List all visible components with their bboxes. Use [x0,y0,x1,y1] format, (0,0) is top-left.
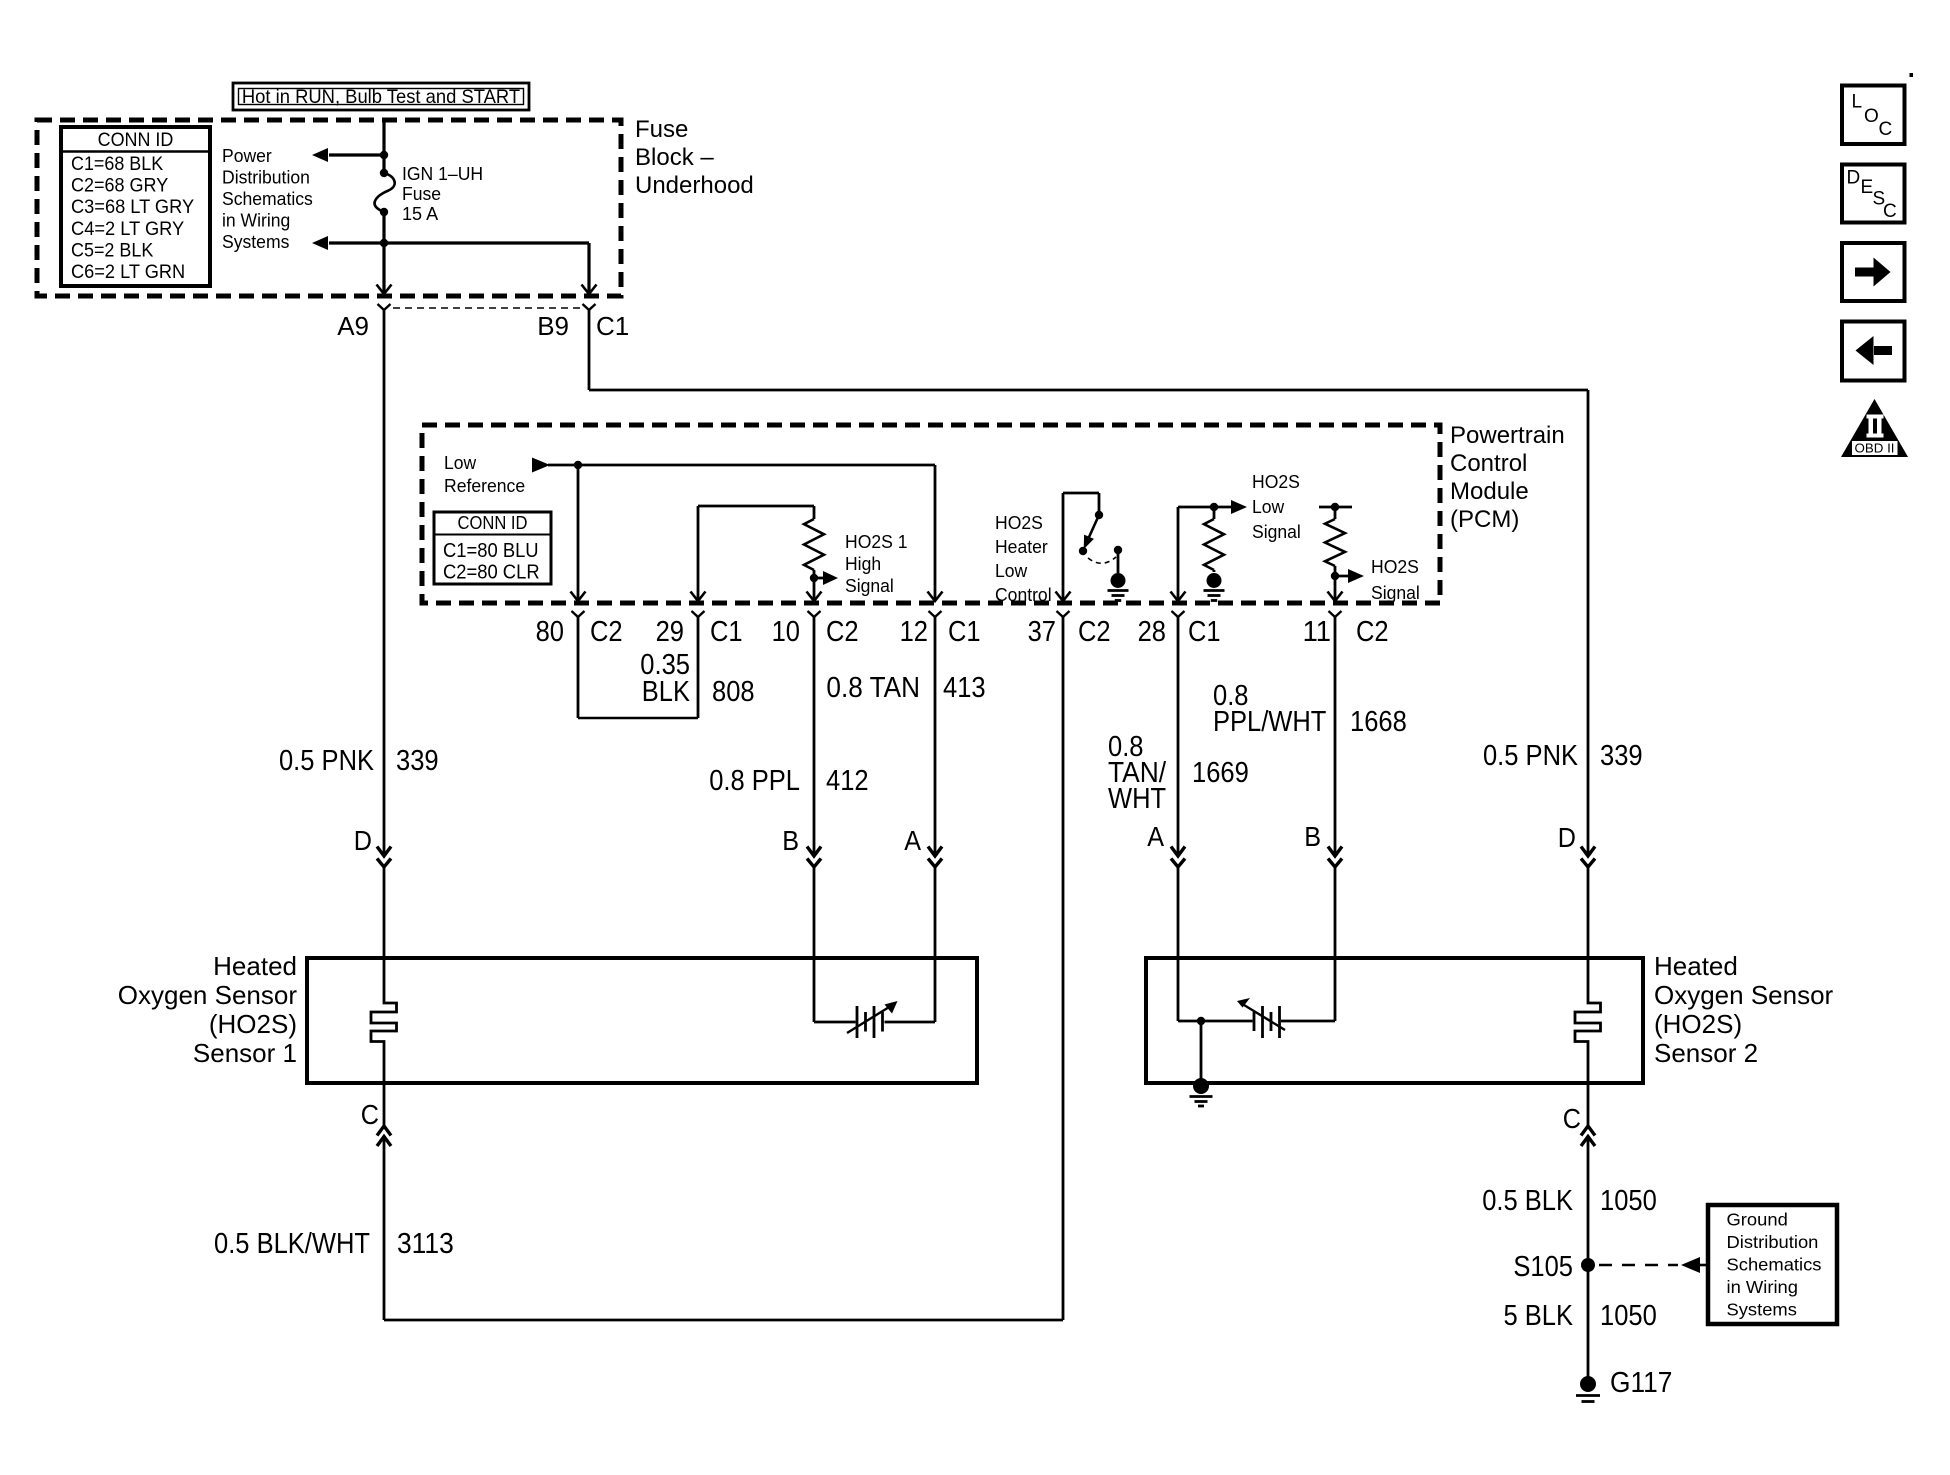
svg-text:(PCM): (PCM) [1450,506,1519,533]
pin 29 C1 [691,592,706,602]
svg-text:D: D [1847,168,1861,189]
HO2S2 pin C wire [1587,1083,1590,1128]
svg-text:C: C [361,1099,379,1130]
node: junction to power distribution [380,151,388,159]
pin B9 [582,285,597,295]
svg-text:HO2S 1: HO2S 1 [845,531,908,552]
svg-text:HO2S: HO2S [1371,556,1419,577]
switch travel dashed arc [1088,557,1116,563]
wire: B9 feed to HO2S2 pin D [588,310,591,390]
svg-text:3113: 3113 [397,1228,454,1260]
CONN ID table (PCM) [434,512,551,584]
svg-text:E: E [1861,177,1874,198]
svg-text:Distribution: Distribution [1727,1232,1819,1252]
svg-text:Signal: Signal [1252,521,1301,542]
svg-text:Heater: Heater [995,536,1048,557]
svg-text:1050: 1050 [1600,1185,1657,1217]
svg-text:C1: C1 [1188,616,1221,648]
svg-text:Heated: Heated [213,951,297,981]
Ground Distribution Schematics box [1708,1205,1837,1324]
Powertrain Control Module (PCM) dashed box [422,425,1440,603]
svg-text:Low: Low [1252,496,1285,517]
svg-text:Fuse: Fuse [635,116,688,143]
svg-text:C2: C2 [826,616,859,648]
svg-text:Powertrain: Powertrain [1450,422,1565,449]
resistor: HO2S 1 high signal pull-up [813,506,816,519]
svg-text:HO2S: HO2S [1252,471,1300,492]
svg-text:HO2S: HO2S [995,512,1043,533]
svg-text:C: C [1883,201,1897,222]
wire: drop to A9 [382,243,385,294]
CONN ID table (fuse block) [61,127,210,286]
svg-text:C1=68 BLK: C1=68 BLK [71,153,163,175]
HO2S1 heater element [371,958,397,1083]
wire arrow to power distribution schematics (top) [329,153,384,156]
svg-text:15 A: 15 A [402,203,439,224]
power label box: Hot in RUN, Bulb Test and START [233,83,529,110]
wire: pins 80-29 loop, 0.35 BLK 808 [577,617,580,718]
icon arrow right [1842,243,1905,301]
svg-text:412: 412 [826,765,869,797]
HO2S 1 High Signal resistor branch [697,506,700,601]
svg-text:C1: C1 [596,311,629,341]
svg-text:Heated: Heated [1654,951,1738,981]
svg-text:80: 80 [536,616,564,648]
wire: A9 to HO2S1 pin D [383,310,386,856]
svg-text:O: O [1864,106,1879,127]
svg-text:1668: 1668 [1350,706,1407,738]
HO2S2 variable arrow [1244,1005,1285,1030]
wire arrow to power distribution schematics (bottom), runs to B9 drop [329,241,589,244]
svg-text:B: B [782,825,799,856]
splice S105 [1581,1258,1595,1272]
ground G117 [1587,1265,1590,1377]
svg-text:Underhood: Underhood [635,172,754,199]
wire: pin28 to HO2S2 A, 0.8 TAN/WHT 1669 [1177,617,1180,856]
Heated Oxygen Sensor (HO2S) Sensor 1 box [307,958,977,1083]
svg-text:C2=68 GRY: C2=68 GRY [71,175,168,197]
svg-text:Low: Low [995,560,1028,581]
svg-text:Systems: Systems [222,231,289,252]
svg-text:C1: C1 [948,616,981,648]
svg-text:Signal: Signal [845,575,894,596]
svg-text:Reference: Reference [444,475,525,496]
HO2S1 sensing cell (variable battery) [813,958,816,1022]
wire: pin10 to HO2S1 B, 0.8 PPL 412 [813,617,816,856]
svg-text:IGN 1–UH: IGN 1–UH [402,163,483,184]
svg-text:10: 10 [772,616,800,648]
svg-text:BLK: BLK [642,676,691,708]
svg-text:Oxygen Sensor: Oxygen Sensor [1654,980,1834,1010]
svg-text:Systems: Systems [1727,1300,1798,1320]
svg-text:Fuse: Fuse [402,183,441,204]
icon arrow left [1842,322,1905,381]
svg-text:(HO2S): (HO2S) [209,1009,297,1039]
svg-text:CONN ID: CONN ID [458,513,528,533]
HO2S2 heater element [1575,958,1601,1083]
svg-text:37: 37 [1028,616,1056,648]
HO2S1 pin C wire [383,1083,386,1128]
Heated Oxygen Sensor (HO2S) Sensor 2 box [1146,958,1643,1083]
svg-text:B9: B9 [537,311,569,341]
pin 28 C1 [1171,592,1186,602]
svg-text:D: D [1558,822,1576,853]
svg-text:C: C [1563,1103,1581,1134]
wire: pin37 to HO2S1 ground run [1062,617,1065,1320]
ground: PCM internal (switch contact) [1111,573,1126,588]
Fuse Block - Underhood dashed box [37,120,621,296]
svg-text:C2: C2 [1078,616,1111,648]
svg-text:G117: G117 [1610,1367,1672,1399]
svg-text:11: 11 [1303,616,1331,648]
svg-text:0.5 BLK/WHT: 0.5 BLK/WHT [214,1228,370,1260]
svg-text:Control: Control [995,584,1052,605]
pin 11 C2 [1328,592,1343,602]
fuse IGN 1-UH 15A [380,169,388,177]
svg-text:D: D [354,825,372,856]
pin 37 C2 [1056,592,1071,602]
svg-text:Schematics: Schematics [1727,1255,1822,1275]
pin A9 [377,285,392,295]
svg-text:0.5 PNK: 0.5 PNK [1483,740,1579,772]
svg-text:0.8 PPL: 0.8 PPL [709,765,800,797]
svg-text:29: 29 [656,616,684,648]
svg-text:Module: Module [1450,478,1529,505]
svg-text:Low: Low [444,452,477,473]
svg-text:C3=68 LT GRY: C3=68 LT GRY [71,196,194,218]
svg-text:C1: C1 [710,616,743,648]
svg-text:0.5 BLK: 0.5 BLK [1482,1185,1573,1217]
svg-text:CONN ID: CONN ID [98,129,174,151]
svg-text:12: 12 [900,616,928,648]
svg-text:339: 339 [1600,740,1643,772]
svg-text:1050: 1050 [1600,1300,1657,1332]
pin 80 C2 [571,592,586,602]
HO2S2 sensing cell [1177,958,1180,1021]
wire: drop to B9 [587,243,590,294]
icon DESC [1842,165,1905,223]
svg-text:A9: A9 [337,311,369,341]
svg-text:C1=80 BLU: C1=80 BLU [443,540,539,562]
switch fixed contact to ground [1114,546,1122,554]
svg-text:Sensor 1: Sensor 1 [193,1038,297,1068]
svg-text:C2: C2 [1356,616,1389,648]
svg-text:S105: S105 [1513,1251,1573,1283]
svg-text:5 BLK: 5 BLK [1504,1300,1574,1332]
OBD II roman numeral [1867,415,1884,419]
pin 10 C2 [807,592,822,602]
svg-text:0.5 PNK: 0.5 PNK [279,745,375,777]
svg-text:C2=80 CLR: C2=80 CLR [443,562,540,584]
svg-text:Block –: Block – [635,144,714,171]
svg-text:OBD II: OBD II [1855,441,1895,456]
svg-text:High: High [845,553,881,574]
wire: battery feed into fuse [382,120,385,173]
svg-text:in Wiring: in Wiring [1727,1277,1799,1297]
resistor: HO2S signal pull [1334,507,1337,519]
svg-text:A: A [904,825,921,856]
svg-text:Power: Power [222,145,272,166]
svg-text:Hot in RUN, Bulb Test and STAR: Hot in RUN, Bulb Test and START [242,86,520,108]
wire: fuse output [382,212,385,243]
resistor: HO2S low signal pull [1213,507,1216,519]
svg-text:Ground: Ground [1727,1210,1788,1230]
svg-text:Schematics: Schematics [222,188,313,209]
wire: pin12 to HO2S1 A, 0.8 TAN 413 [934,617,937,856]
svg-text:C4=2 LT GRY: C4=2 LT GRY [71,218,184,240]
svg-text:Sensor 2: Sensor 2 [1654,1038,1758,1068]
svg-text:PPL/WHT: PPL/WHT [1213,706,1327,738]
svg-text:28: 28 [1138,616,1166,648]
dashed reference to ground distribution [1599,1264,1678,1267]
svg-text:in Wiring: in Wiring [222,210,290,231]
wire: pin11 to HO2S2 B, 0.8 PPL/WHT 1668 [1334,617,1337,856]
svg-text:B: B [1304,821,1321,852]
svg-text:WHT: WHT [1108,783,1166,815]
icon LOC [1842,86,1905,145]
svg-text:A: A [1147,821,1164,852]
svg-text:Control: Control [1450,450,1527,477]
svg-text:413: 413 [943,672,986,704]
HO2S1 variable arrow [847,1007,890,1034]
pin 12 C1 [928,592,943,602]
stray dot [1910,73,1914,77]
connector dashed line A9-B9 [393,307,581,309]
svg-text:C: C [1879,119,1893,140]
svg-text:(HO2S): (HO2S) [1654,1009,1742,1039]
HO2S2 internal ground [1200,1021,1203,1079]
OBD II label box [1852,441,1898,455]
svg-text:C5=2 BLK: C5=2 BLK [71,239,153,261]
svg-text:339: 339 [396,745,439,777]
node: junction to power distribution (bottom) [380,239,388,247]
svg-text:C2: C2 [590,616,623,648]
svg-text:808: 808 [712,676,755,708]
svg-text:C6=2 LT GRN: C6=2 LT GRN [71,261,185,283]
svg-text:Distribution: Distribution [222,167,310,188]
icon OBD II triangle [1841,399,1908,457]
svg-text:1669: 1669 [1192,757,1249,789]
svg-text:L: L [1852,92,1863,113]
svg-text:0.8 TAN: 0.8 TAN [826,672,920,704]
svg-text:Oxygen Sensor: Oxygen Sensor [118,980,298,1010]
ground: PCM internal (low signal) [1207,573,1222,588]
svg-text:Signal: Signal [1371,582,1420,603]
node: resistor top junction [1210,503,1218,511]
